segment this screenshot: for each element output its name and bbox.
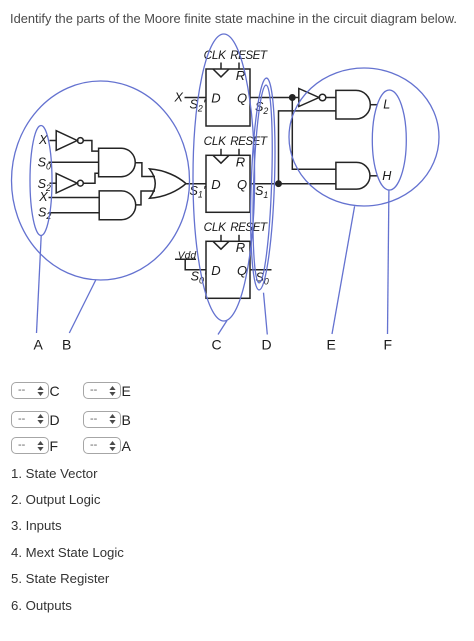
leader line to label E bbox=[332, 206, 355, 334]
wire S2 to G2 bottom input bbox=[49, 212, 100, 214]
FF3 CLK stub bbox=[220, 235, 222, 242]
annotation ellipse A (inputs) bbox=[30, 126, 52, 236]
svg-text:S1: S1 bbox=[255, 184, 268, 200]
wire G3 out (S1') to FF2 D bbox=[186, 183, 206, 185]
AND gate G5 (output H) bbox=[336, 162, 370, 189]
FF2 RESET stub bbox=[238, 149, 240, 156]
wire INV3 out to G4 top input bbox=[326, 97, 336, 99]
svg-text:RESET: RESET bbox=[230, 49, 268, 62]
annotation ellipse F (outputs) bbox=[372, 90, 406, 190]
wire input X to FF1 D bbox=[185, 97, 207, 99]
svg-text:RESET: RESET bbox=[230, 221, 268, 234]
wire FF1 Q (S2) to node N1 and INV3 bbox=[250, 97, 299, 99]
wire G1 out to OR G3 bbox=[135, 163, 155, 177]
svg-text:R: R bbox=[236, 240, 245, 255]
Vdd rail line bbox=[175, 258, 196, 260]
wire node N2 up to G4 bottom input bbox=[279, 111, 336, 184]
FF3 RESET stub bbox=[238, 235, 240, 242]
OR gate G3 bbox=[150, 169, 187, 198]
wire G4 out to L bbox=[370, 104, 377, 106]
svg-text:H: H bbox=[382, 169, 392, 183]
leader line to label B bbox=[69, 280, 96, 334]
inverter INV1 (input X) bbox=[56, 131, 77, 151]
svg-text:Q: Q bbox=[237, 91, 247, 106]
svg-text:X: X bbox=[38, 190, 48, 204]
svg-text:X: X bbox=[38, 133, 48, 147]
wire input S2 to INV2 bbox=[50, 182, 57, 184]
wire INV1 out to G1 top input bbox=[83, 141, 98, 152]
flip-flop FF3 box bbox=[206, 241, 250, 298]
FF1 CLK stub bbox=[220, 63, 222, 70]
wire G5 out to H bbox=[370, 175, 378, 177]
annotation ellipse E (output logic) bbox=[289, 68, 439, 206]
annotation ellipse D inner bbox=[250, 85, 275, 284]
svg-text:RESET: RESET bbox=[230, 135, 268, 148]
FF3 clock edge triangle bbox=[213, 241, 229, 249]
wire S0 to G1 middle input bbox=[49, 161, 99, 163]
wire node N1 down to G5 top input bbox=[292, 98, 336, 170]
svg-text:F: F bbox=[384, 337, 393, 353]
svg-text:B: B bbox=[62, 337, 71, 353]
dropdown row 2 bbox=[11, 411, 49, 428]
svg-text:S0: S0 bbox=[38, 156, 51, 172]
flip-flop FF2 box bbox=[206, 155, 250, 212]
wire Vdd to FF3 D bbox=[185, 259, 206, 270]
leader line to label C bbox=[218, 321, 227, 335]
svg-text:Q: Q bbox=[237, 177, 247, 192]
FF2 clock edge triangle bbox=[213, 155, 229, 163]
wire INV2 out to G1 bottom input bbox=[83, 173, 98, 183]
node N2 junction dot bbox=[276, 181, 281, 186]
FF1 RESET stub bbox=[238, 63, 240, 70]
annotation ellipse D outer (state vector) bbox=[248, 78, 279, 291]
inverter INV3 bbox=[299, 89, 319, 107]
svg-text:Q: Q bbox=[237, 263, 247, 278]
node N1 junction dot bbox=[290, 95, 295, 100]
flip-flop FF1 box bbox=[206, 69, 250, 126]
annotation ellipse B (next state logic) bbox=[12, 81, 190, 280]
inverter INV2 (input S2) bbox=[56, 173, 77, 193]
svg-text:S0': S0' bbox=[191, 270, 207, 286]
wire G2 out to OR G3 bbox=[136, 191, 155, 205]
FF2 CLK stub bbox=[220, 149, 222, 156]
svg-text:D: D bbox=[211, 177, 220, 192]
svg-text:S1': S1' bbox=[190, 184, 206, 200]
wire FF3 Q (S0) stub bbox=[250, 269, 272, 271]
svg-text:A: A bbox=[34, 337, 44, 353]
leader line to label A bbox=[37, 236, 42, 333]
svg-text:L: L bbox=[383, 98, 390, 112]
leader line to label F bbox=[388, 191, 389, 335]
svg-text:E: E bbox=[327, 337, 336, 353]
wire X to G2 top input bbox=[49, 197, 100, 199]
svg-text:CLK: CLK bbox=[204, 221, 228, 234]
wire FF2 Q (S1) to node N2 and G5 bottom input bbox=[250, 183, 336, 185]
FF1 clock edge triangle bbox=[213, 69, 229, 77]
annotation ellipse C (state register) bbox=[193, 34, 255, 321]
AND gate G1 (3-input) bbox=[99, 148, 136, 177]
svg-text:C: C bbox=[212, 337, 222, 353]
svg-text:D: D bbox=[262, 337, 272, 353]
dropdown row 1 bbox=[11, 382, 49, 399]
wire input X to INV1 bbox=[50, 140, 57, 142]
svg-text:X: X bbox=[174, 90, 184, 104]
svg-text:CLK: CLK bbox=[204, 135, 228, 148]
AND gate G4 (output L) bbox=[336, 90, 370, 119]
svg-text:R: R bbox=[236, 154, 245, 169]
svg-text:Vdd: Vdd bbox=[178, 250, 197, 261]
dropdown row 3 bbox=[11, 437, 49, 454]
AND gate G2 (2-input) bbox=[99, 191, 136, 220]
svg-text:D: D bbox=[211, 263, 220, 278]
leader line to label D bbox=[264, 293, 268, 335]
svg-text:D: D bbox=[211, 91, 220, 106]
